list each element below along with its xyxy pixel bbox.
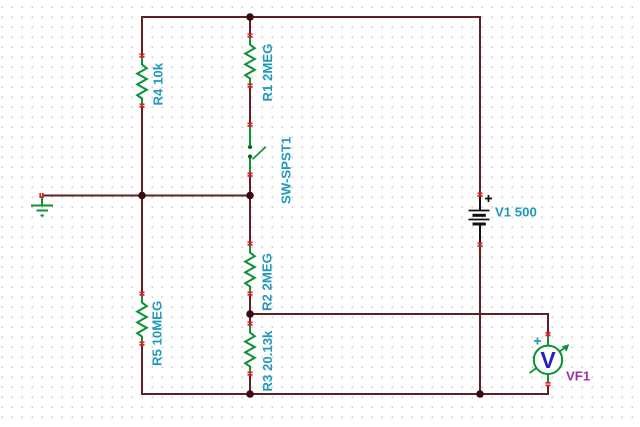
svg-text:R3 20.13k: R3 20.13k xyxy=(260,330,275,392)
wire left branch middle xyxy=(141,106,143,294)
resistor R2 xyxy=(245,244,255,294)
wire switch to R2 xyxy=(249,175,251,244)
wire R3 to bottom xyxy=(249,374,251,394)
wire middle branch top xyxy=(249,17,251,36)
terminal R5 pin1 xyxy=(140,291,145,295)
node junction top xyxy=(246,13,254,21)
wire ground rail xyxy=(43,195,250,197)
svg-text:R1 2MEG: R1 2MEG xyxy=(260,44,275,102)
switch contact dot upper xyxy=(248,145,252,149)
terminal VF1 pin2 xyxy=(546,382,551,386)
terminal R5 pin2 xyxy=(140,341,145,345)
switch contact dot lower xyxy=(248,155,252,159)
voltmeter body xyxy=(534,346,562,374)
ground xyxy=(31,196,53,216)
terminal R2 pin2 xyxy=(248,291,253,295)
svg-text:VF1: VF1 xyxy=(566,369,590,384)
node junction bottom-right xyxy=(476,390,484,398)
terminal V1 pin1 xyxy=(478,192,483,196)
voltmeter VF1 xyxy=(530,336,569,383)
resistor R5 xyxy=(137,294,147,344)
wire left branch upper xyxy=(141,17,143,56)
node junction switch-bottom xyxy=(246,192,254,200)
svg-text:R4 10k: R4 10k xyxy=(151,62,166,105)
terminal VF1 pin1 xyxy=(546,332,551,336)
wire R1 to switch xyxy=(249,86,251,125)
node junction R2-R3 xyxy=(246,310,254,318)
wire R2 to node xyxy=(249,294,251,324)
switch SW-SPST1 xyxy=(250,126,266,174)
terminal R2 pin1 xyxy=(248,241,253,245)
node junction left-ground xyxy=(138,192,146,200)
resistor R3 xyxy=(245,324,255,374)
wire bottom rail xyxy=(142,393,548,395)
terminal SW pin1 xyxy=(248,122,253,126)
resistor R4 xyxy=(137,56,147,106)
svg-text:R5 10MEG: R5 10MEG xyxy=(150,301,165,366)
node junction bottom-middle xyxy=(246,390,254,398)
svg-text:V1 500: V1 500 xyxy=(495,205,537,220)
wire right branch upper xyxy=(479,17,481,195)
wire voltmeter bottom lead xyxy=(547,386,549,395)
terminal R4 pin1 xyxy=(140,53,145,57)
svg-text:R2 2MEG: R2 2MEG xyxy=(260,253,275,311)
svg-text:SW-SPST1: SW-SPST1 xyxy=(279,137,294,204)
battery V1 xyxy=(469,195,493,244)
terminal SW pin2 xyxy=(248,172,253,176)
wire node rail to voltmeter xyxy=(250,314,548,334)
svg-text:V: V xyxy=(540,347,556,373)
wire top rail xyxy=(142,16,480,18)
terminal R1 pin1 xyxy=(248,33,253,37)
wire right branch lower xyxy=(479,245,481,394)
voltmeter arrowhead xyxy=(562,344,569,351)
terminal R3 pin1 xyxy=(248,321,253,325)
terminal R3 pin2 xyxy=(248,371,253,375)
resistor R1 xyxy=(245,36,255,86)
voltmeter plus sign xyxy=(534,338,541,345)
wire left branch lower xyxy=(141,344,143,394)
terminal R1 pin2 xyxy=(248,83,253,87)
terminal R4 pin2 xyxy=(140,103,145,107)
terminal ground xyxy=(39,193,43,198)
terminal V1 pin2 xyxy=(478,242,483,246)
